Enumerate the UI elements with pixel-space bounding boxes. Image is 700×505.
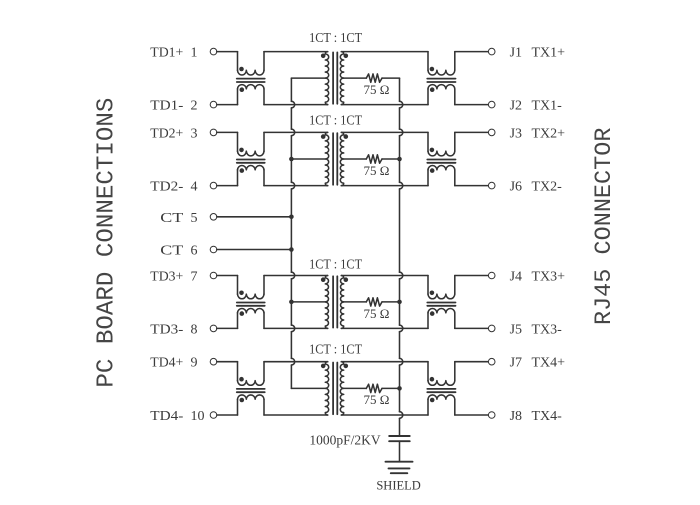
svg-text:75 Ω: 75 Ω [364, 306, 390, 321]
transformer T1 core [332, 52, 334, 103]
svg-text:TX3+: TX3+ [532, 270, 566, 285]
transformer T2 phase dots [321, 134, 326, 139]
transformer T3 secondary winding [340, 276, 343, 329]
wire choke to terminal J8 [455, 414, 489, 416]
capacitor C1 1000pF/2KV [389, 435, 410, 437]
terminal J4 [488, 272, 495, 279]
svg-text:TX3-: TX3- [532, 322, 563, 337]
wire T3 primary center tap to left rail [291, 301, 325, 303]
svg-text:75 Ω: 75 Ω [364, 82, 390, 97]
wire choke to terminal J3 [455, 131, 489, 133]
wire T2 secondary bottom to right choke [341, 185, 428, 187]
wire pin 10 to choke [217, 414, 238, 416]
wire T2 secondary center tap to resistor [344, 158, 367, 160]
transformer T4 phase dots [321, 364, 326, 369]
svg-text:1CT : 1CT: 1CT : 1CT [309, 257, 363, 272]
wire choke to T3 primary top [264, 275, 328, 277]
wire choke to T1 primary top [264, 51, 328, 53]
transformer T1 phase dots [321, 54, 326, 59]
common-mode choke L1a (left, row 1) [237, 52, 239, 71]
terminal pin 2 (TD1-) [210, 101, 217, 108]
wire capacitor to ground [399, 441, 401, 462]
right rail to capacitor (node shield) [399, 78, 401, 101]
svg-text:7: 7 [191, 270, 198, 285]
svg-text:TD2+: TD2+ [150, 126, 183, 141]
wire choke to terminal J7 [455, 361, 489, 363]
wire pin 1 to choke [217, 51, 238, 53]
terminal pin 3 (TD2+) [210, 129, 217, 136]
terminal J1 [488, 48, 495, 55]
wire T1 primary center tap to left rail [291, 77, 325, 79]
svg-text:1CT : 1CT: 1CT : 1CT [309, 342, 363, 357]
svg-text:J2: J2 [510, 99, 522, 114]
svg-text:1000pF/2KV: 1000pF/2KV [309, 432, 381, 447]
wire pin 8 to choke [217, 327, 238, 329]
wire pin 4 to choke [217, 185, 238, 187]
common-mode choke L1b (right, row 1) [427, 52, 429, 71]
svg-text:TX4-: TX4- [532, 409, 563, 424]
wire T3 secondary bottom to right choke [341, 327, 428, 329]
common-mode choke L3b (right, row 3) [427, 276, 429, 295]
wire pin 7 to choke [217, 275, 238, 277]
svg-text:2: 2 [191, 99, 198, 114]
ground (shield earth symbol) [386, 461, 413, 463]
common-mode choke L2b (right, row 2) [427, 132, 429, 151]
svg-text:PC BOARD CONNECTIONS: PC BOARD CONNECTIONS [93, 98, 120, 388]
wire choke to terminal J6 [455, 185, 489, 187]
terminal J8 [488, 412, 495, 419]
wire T4 secondary top to right choke [341, 361, 428, 363]
svg-text:TD2-: TD2- [150, 180, 183, 195]
wire T3 secondary top to right choke [341, 275, 428, 277]
svg-text:SHIELD: SHIELD [376, 479, 420, 493]
svg-text:3: 3 [191, 126, 198, 141]
wire T4 secondary center tap to resistor [344, 387, 367, 389]
terminal pin 4 (TD2-) [210, 182, 217, 189]
svg-text:J6: J6 [510, 180, 522, 195]
terminal J7 [488, 358, 495, 365]
wire choke to T4 primary top [264, 361, 328, 363]
wire choke to terminal J4 [455, 275, 489, 277]
transformer T1 secondary winding [340, 52, 343, 105]
svg-text:TD1+: TD1+ [150, 46, 183, 61]
wire CT pin 6 to left rail [217, 249, 292, 251]
common-mode choke L2a (left, row 2) [237, 132, 239, 151]
svg-text:TD3+: TD3+ [150, 270, 183, 285]
junction left rail / T2 center tap [289, 157, 294, 162]
wire T3 secondary center tap to resistor [344, 301, 367, 303]
common-mode choke L3a (left, row 3) [237, 276, 239, 295]
svg-text:10: 10 [191, 409, 205, 424]
svg-text:4: 4 [191, 180, 198, 195]
wire choke to terminal J2 [455, 104, 489, 106]
resistor R3 75 ohm [366, 298, 382, 306]
svg-text:TX4+: TX4+ [532, 356, 566, 371]
terminal pin 8 (TD3-) [210, 325, 217, 332]
svg-text:75 Ω: 75 Ω [364, 392, 390, 407]
junction right rail / R2 [397, 157, 402, 162]
svg-text:TX2+: TX2+ [532, 126, 566, 141]
wire choke to terminal J5 [455, 327, 489, 329]
common-mode choke L4b (right, row 4) [427, 362, 429, 381]
transformer T2 primary winding [325, 132, 328, 185]
wire pin 2 to choke [217, 104, 238, 106]
svg-text:TX1-: TX1- [532, 99, 563, 114]
junction right rail / R3 [397, 300, 402, 305]
svg-text:J7: J7 [510, 356, 522, 371]
transformer T2 core [332, 133, 334, 185]
terminal pin 9 (TD4+) [210, 358, 217, 365]
svg-text:8: 8 [191, 322, 198, 337]
svg-text:TD4-: TD4- [150, 409, 183, 424]
terminal J6 [488, 182, 495, 189]
resistor R1 75 ohm [366, 74, 382, 82]
terminal pin 7 (TD3+) [210, 272, 217, 279]
transformer T4 primary winding [325, 362, 328, 415]
svg-text:J3: J3 [510, 126, 522, 141]
svg-text:5: 5 [191, 211, 198, 226]
transformer T4 secondary winding [340, 362, 343, 415]
wire pin 9 to choke [217, 361, 238, 363]
svg-text:TX2-: TX2- [532, 180, 563, 195]
transformer T3 primary winding [325, 276, 328, 329]
wire choke to T2 primary bottom [264, 185, 328, 187]
svg-text:TD1-: TD1- [150, 99, 183, 114]
transformer T3 core [332, 276, 334, 327]
svg-text:TD4+: TD4+ [150, 356, 183, 371]
svg-text:TD3-: TD3- [150, 322, 183, 337]
terminal J5 [488, 325, 495, 332]
wire pin 3 to choke [217, 131, 238, 133]
junction left rail / CT 6 [289, 247, 294, 252]
wire resistor R1 to right rail [382, 77, 400, 79]
transformer T3 phase dots [321, 277, 326, 282]
transformer T2 secondary winding [340, 132, 343, 185]
svg-text:1CT : 1CT: 1CT : 1CT [309, 30, 363, 45]
svg-text:9: 9 [191, 356, 198, 371]
wire choke to terminal J1 [455, 51, 489, 53]
svg-text:1CT : 1CT: 1CT : 1CT [309, 112, 363, 127]
wire choke to T1 primary bottom [264, 104, 328, 106]
resistor R2 75 ohm [366, 155, 382, 163]
wire resistor R3 to right rail [382, 301, 400, 303]
wire T4 primary center tap to left rail [291, 387, 325, 389]
svg-text:J8: J8 [510, 409, 522, 424]
terminal pin 6 (CT) [210, 246, 217, 253]
wire choke to T3 primary bottom [264, 327, 328, 329]
wire T2 primary center tap to left rail [291, 158, 325, 160]
terminal pin 5 (CT) [210, 214, 217, 221]
terminal J2 [488, 101, 495, 108]
svg-text:J4: J4 [510, 270, 522, 285]
svg-text:75 Ω: 75 Ω [364, 163, 390, 178]
wire T2 secondary top to right choke [341, 131, 428, 133]
wire T1 secondary top to right choke [341, 51, 428, 53]
svg-text:CT: CT [160, 244, 184, 259]
left center-tap rail (node CT) [290, 78, 292, 101]
terminal pin 10 (TD4-) [210, 412, 217, 419]
wire resistor R2 to right rail [382, 158, 400, 160]
svg-text:CT: CT [160, 211, 184, 226]
svg-text:TX1+: TX1+ [532, 46, 566, 61]
transformer T4 core [332, 363, 334, 415]
wire resistor R4 to right rail [382, 387, 400, 389]
svg-text:RJ45 CONNECTOR: RJ45 CONNECTOR [591, 128, 618, 325]
resistor R4 75 ohm [366, 384, 382, 392]
terminal J3 [488, 129, 495, 136]
junction left rail / T3 center tap [289, 300, 294, 305]
transformer T1 primary winding [325, 52, 328, 105]
wire choke to T4 primary bottom [264, 414, 328, 416]
terminal pin 1 (TD1+) [210, 48, 217, 55]
common-mode choke L4a (left, row 4) [237, 362, 239, 381]
svg-text:6: 6 [191, 244, 198, 259]
wire choke to T2 primary top [264, 131, 328, 133]
wire T4 secondary bottom to right choke [341, 414, 428, 416]
wire T1 secondary center tap to resistor [344, 77, 367, 79]
wire T1 secondary bottom to right choke [341, 104, 428, 106]
wire CT pin 5 to left rail [217, 216, 292, 218]
svg-text:1: 1 [191, 46, 198, 61]
svg-text:J1: J1 [510, 46, 522, 61]
svg-text:J5: J5 [510, 322, 522, 337]
junction left rail / CT 5 [289, 215, 294, 220]
junction right rail / R4 [397, 386, 402, 391]
